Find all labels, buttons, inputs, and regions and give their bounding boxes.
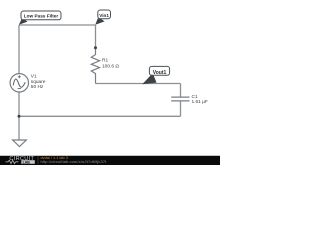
- svg-text:Vout1: Vout1: [153, 70, 167, 76]
- svg-text:V1: V1: [31, 73, 37, 79]
- node flag Vout1: [142, 66, 169, 84]
- label C1 value: [192, 94, 208, 105]
- wire left vertical from top corner to V1 top: [18, 25, 20, 74]
- svg-text:Vin1: Vin1: [99, 13, 109, 18]
- voltage source V1: [10, 74, 28, 92]
- wire bottom return: [19, 115, 181, 117]
- node flag Low Pass Filter: [19, 11, 61, 25]
- footer CircuitLab logo: [6, 156, 39, 164]
- svg-text:Low Pass Filter: Low Pass Filter: [24, 13, 59, 18]
- wire V1 bottom to ground junction: [18, 92, 20, 140]
- ground: [13, 140, 27, 147]
- junction dot at ground node: [18, 115, 21, 118]
- svg-text:100.6 Ω: 100.6 Ω: [102, 64, 119, 70]
- svg-text:LAB: LAB: [23, 160, 31, 164]
- svg-text:50 Hz: 50 Hz: [31, 84, 44, 90]
- node dot at R1 top: [94, 46, 97, 49]
- svg-text:R1: R1: [102, 58, 108, 64]
- label V1 value: [31, 73, 46, 90]
- svg-text:square: square: [31, 79, 46, 85]
- wire C1 lead bottom: [180, 102, 182, 117]
- svg-text:http://circuitlab.com/c/u2t7d6: http://circuitlab.com/c/u2t7d69jk37t: [41, 159, 108, 164]
- svg-text:1.61 µF: 1.61 µF: [192, 99, 208, 105]
- wire Vin vertical from top corner to R1 top: [95, 25, 97, 48]
- label R1 value: [102, 58, 119, 70]
- resistor R1: [91, 48, 99, 84]
- capacitor C1: [171, 97, 189, 101]
- wire middle Vout from R1 bottom to C1 top: [96, 83, 181, 85]
- footer bar: [0, 156, 220, 166]
- svg-text:C1: C1: [192, 94, 198, 100]
- wire C1 lead top: [180, 84, 182, 97]
- node flag Vin1: [95, 10, 110, 25]
- wire top from node A to Vin node: [19, 24, 96, 26]
